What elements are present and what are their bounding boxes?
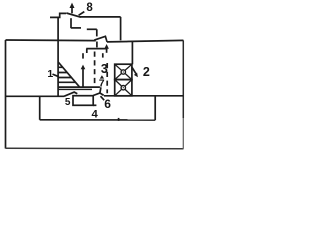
label 1 leader xyxy=(53,74,59,77)
wire across upper xyxy=(71,27,81,29)
top-edge switch lower tick xyxy=(96,42,98,48)
flow arrow top xyxy=(106,48,108,53)
label 2 leader xyxy=(132,67,136,74)
label 8 leader xyxy=(79,12,85,16)
airflow dashed wall mid xyxy=(94,52,96,87)
airflow dashed wall right xyxy=(106,63,108,93)
svg-text:8: 8 xyxy=(86,2,93,14)
switch 8 left lead xyxy=(50,13,66,17)
outer casing right edge xyxy=(182,40,184,118)
switch 6 lever xyxy=(93,93,100,96)
duct wall xyxy=(57,17,59,96)
outer casing left edge xyxy=(5,40,7,149)
plenum line xyxy=(104,95,183,97)
svg-text:2: 2 xyxy=(143,65,150,79)
fan 2 upper cell xyxy=(115,64,132,79)
svg-text:4: 4 xyxy=(91,109,98,121)
switch 8 actuator arrow xyxy=(71,7,73,13)
duct corner stub xyxy=(86,49,88,53)
outer casing top edge right part xyxy=(107,40,183,42)
wire from switch 8 down xyxy=(70,18,72,28)
wire down to top-edge switch xyxy=(96,29,98,36)
duct top line xyxy=(86,48,107,50)
switch 8 blade xyxy=(66,13,80,17)
svg-text:7: 7 xyxy=(99,77,105,89)
floor drop xyxy=(39,96,41,120)
outer casing bottom edge xyxy=(6,147,184,150)
inner bottom tick xyxy=(118,118,120,121)
heater 1 hypotenuse xyxy=(58,62,80,87)
flow arrow mid dash above xyxy=(82,53,84,58)
heater 1 base shelf lower line xyxy=(58,88,92,90)
damper box 4 xyxy=(73,96,93,106)
svg-text:5: 5 xyxy=(65,97,71,108)
label 6 leader xyxy=(101,96,105,100)
switch 8 right lead xyxy=(80,16,121,18)
flow arrow lower xyxy=(100,75,104,78)
wire down to casing top right xyxy=(120,17,122,40)
top-edge switch blade xyxy=(94,36,107,42)
airflow dashed segment centre xyxy=(102,53,104,61)
fan 2 lower cell xyxy=(115,80,132,96)
plenum wall xyxy=(154,96,156,120)
svg-text:6: 6 xyxy=(104,97,111,111)
svg-text:3: 3 xyxy=(101,62,108,76)
switch 7 blade xyxy=(100,87,104,95)
switch 5 blade xyxy=(64,92,77,96)
outer casing top edge left part xyxy=(6,39,96,42)
floor line left xyxy=(6,95,65,97)
inner bottom line xyxy=(40,119,156,121)
flow arrow mid xyxy=(82,68,84,87)
heater 1 hatch lines xyxy=(59,67,76,82)
damper box bottom extension xyxy=(93,104,96,106)
outer casing right edge lower xyxy=(182,118,184,149)
svg-text:1: 1 xyxy=(47,68,53,80)
wire across upper right part xyxy=(87,28,97,30)
wire down to fan unit xyxy=(131,42,133,65)
heater 1 base shelf xyxy=(58,86,100,88)
